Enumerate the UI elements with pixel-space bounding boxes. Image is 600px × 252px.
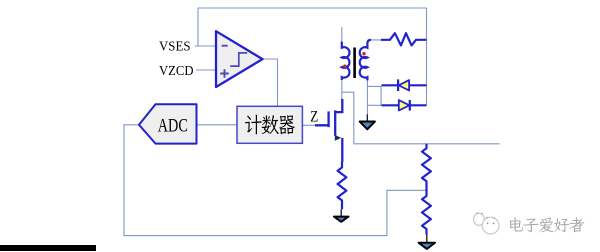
svg-text:ADC: ADC <box>158 115 188 136</box>
svg-text:VSES: VSES <box>159 38 191 53</box>
svg-text:VZCD: VZCD <box>159 63 194 78</box>
svg-text:Z: Z <box>310 109 318 126</box>
